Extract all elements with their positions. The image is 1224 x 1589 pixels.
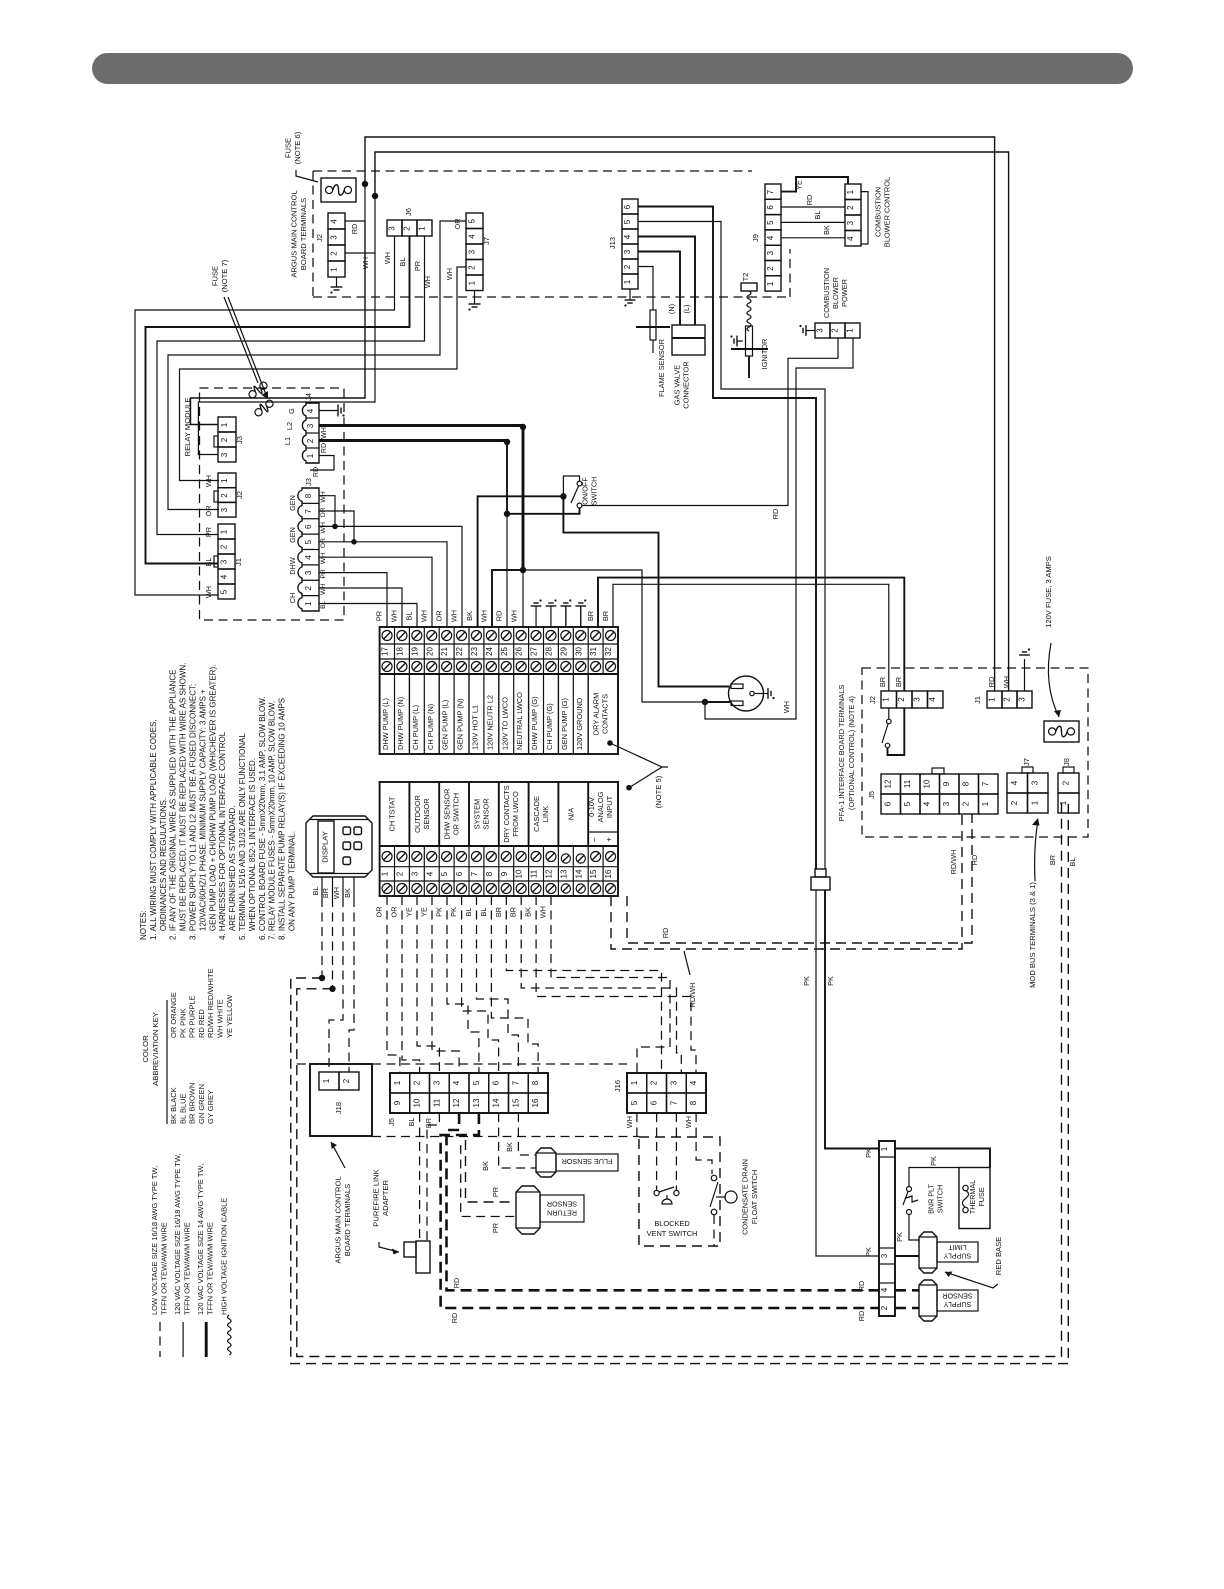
svg-text:GEN: GEN bbox=[288, 495, 297, 511]
svg-text:13: 13 bbox=[559, 869, 568, 878]
svg-text:3: 3 bbox=[913, 697, 922, 702]
svg-text:J2: J2 bbox=[235, 491, 244, 499]
svg-text:BK: BK bbox=[343, 888, 352, 898]
grounds above terminals 27-30 bbox=[531, 599, 587, 627]
notes text bbox=[139, 663, 297, 940]
svg-text:1: 1 bbox=[846, 328, 855, 333]
svg-text:ORDINANCES AND REGULATIONS.: ORDINANCES AND REGULATIONS. bbox=[159, 798, 168, 940]
svg-text:DHW PUMP (N): DHW PUMP (N) bbox=[396, 697, 405, 750]
wire BL t7 to J5-7 bbox=[477, 896, 519, 1073]
svg-text:SWITCH: SWITCH bbox=[590, 477, 599, 506]
labels RD/WH RD at PFA J5 bbox=[949, 850, 979, 875]
svg-text:RD: RD bbox=[661, 928, 670, 939]
svg-text:15: 15 bbox=[589, 869, 598, 878]
svg-text:4: 4 bbox=[766, 235, 775, 240]
leader fuse note7 bbox=[224, 297, 268, 399]
svg-text:(N): (N) bbox=[667, 304, 676, 314]
svg-text:5: 5 bbox=[766, 220, 775, 225]
svg-text:1: 1 bbox=[981, 801, 990, 806]
svg-text:RD: RD bbox=[771, 509, 780, 520]
svg-text:PR PURPLE: PR PURPLE bbox=[188, 995, 197, 1038]
wire WH neutral to blower power 1 bbox=[705, 338, 853, 719]
connector J2 (main board) bbox=[315, 213, 345, 277]
fuse F-note7 label bbox=[210, 259, 229, 292]
svg-text:4: 4 bbox=[623, 234, 632, 239]
svg-text:BL: BL bbox=[320, 600, 327, 609]
svg-text:2: 2 bbox=[846, 205, 855, 210]
svg-text:4: 4 bbox=[330, 219, 339, 224]
svg-text:FUSE: FUSE bbox=[283, 138, 292, 158]
svg-text:5: 5 bbox=[472, 1080, 481, 1085]
wire WH neutral run to plug bbox=[523, 570, 708, 705]
svg-text:CH PUMP (N): CH PUMP (N) bbox=[426, 704, 435, 750]
svg-text:2: 2 bbox=[403, 226, 412, 231]
svg-text:PUREFIRE LINK: PUREFIRE LINK bbox=[371, 1169, 380, 1226]
svg-text:RD: RD bbox=[350, 224, 359, 235]
svg-text:GY GREY: GY GREY bbox=[206, 1090, 215, 1124]
svg-text:RD: RD bbox=[321, 443, 328, 453]
svg-text:7: 7 bbox=[981, 781, 990, 786]
dashed stubs at J18 box bbox=[297, 1064, 639, 1137]
svg-text:(NOTE 5): (NOTE 5) bbox=[654, 775, 663, 808]
svg-text:120 VAC VOLTAGE SIZE 16/18 AWG: 120 VAC VOLTAGE SIZE 16/18 AWG TYPE TW, bbox=[173, 1153, 182, 1315]
svg-text:J7: J7 bbox=[482, 237, 491, 245]
svg-text:OR: OR bbox=[375, 907, 384, 918]
wire BR J5-11 to adapter bbox=[427, 1113, 439, 1241]
svg-text:3: 3 bbox=[468, 249, 477, 254]
svg-text:3: 3 bbox=[220, 507, 229, 512]
svg-text:RD/WH: RD/WH bbox=[688, 983, 697, 1008]
svg-text:LIMIT: LIMIT bbox=[948, 1243, 967, 1252]
svg-text:(NOTE 6): (NOTE 6) bbox=[293, 131, 302, 164]
svg-text:2: 2 bbox=[623, 264, 632, 269]
svg-text:5: 5 bbox=[220, 589, 229, 594]
svg-text:1: 1 bbox=[393, 1080, 402, 1085]
svg-text:FLOAT SWITCH: FLOAT SWITCH bbox=[750, 1170, 759, 1224]
svg-text:FLAME SENSOR: FLAME SENSOR bbox=[657, 339, 666, 397]
svg-text:2: 2 bbox=[220, 437, 229, 442]
svg-text:PK: PK bbox=[864, 1247, 873, 1257]
wire WH plug prong bbox=[705, 701, 731, 703]
svg-text:ON ANY PUMP TERMINAL.: ON ANY PUMP TERMINAL. bbox=[288, 831, 297, 940]
label PUREFIRE LINK ADAPTER bbox=[371, 1169, 390, 1226]
terminal strip TB 1-16 bbox=[380, 782, 618, 896]
wire L2/WH thick from J4-3 bbox=[319, 424, 526, 430]
svg-text:OR: OR bbox=[320, 538, 327, 548]
svg-text:5: 5 bbox=[630, 1100, 639, 1105]
svg-text:120VAC/60HZ/1 PHASE. MINIMUM S: 120VAC/60HZ/1 PHASE. MINIMUM SUPPLY CAPA… bbox=[198, 689, 207, 940]
svg-text:FUSE: FUSE bbox=[210, 266, 219, 286]
wire WH label near J7-2 bbox=[423, 276, 432, 288]
wire color labels below terminals 1-12 bbox=[375, 906, 548, 918]
svg-text:6: 6 bbox=[650, 1100, 659, 1105]
wire RD J9-6 to blower control 2 bbox=[781, 195, 845, 207]
svg-text:WH: WH bbox=[445, 268, 454, 280]
svg-text:6: 6 bbox=[304, 524, 313, 529]
svg-text:26: 26 bbox=[515, 647, 524, 656]
svg-text:RD: RD bbox=[970, 855, 979, 866]
svg-text:5: 5 bbox=[304, 539, 313, 544]
wire BL display to border net bbox=[319, 898, 325, 981]
wire WH display to J18-1 bbox=[329, 898, 343, 1072]
svg-text:YE: YE bbox=[420, 907, 429, 917]
svg-text:7: 7 bbox=[766, 189, 775, 194]
svg-text:6: 6 bbox=[766, 205, 775, 210]
svg-text:2: 2 bbox=[306, 438, 315, 443]
on/off switch bbox=[571, 481, 582, 508]
svg-text:BR: BR bbox=[586, 611, 595, 621]
svg-text:BL: BL bbox=[1068, 858, 1077, 867]
wire WH J7-2 to relay J2-1 bbox=[180, 267, 467, 481]
color abbreviation key bbox=[141, 968, 234, 1124]
svg-text:WH: WH bbox=[320, 553, 327, 564]
svg-text:BLOWER CONTROL: BLOWER CONTROL bbox=[883, 177, 892, 247]
wire YE J9-7 to blower control 1 bbox=[781, 177, 848, 192]
svg-text:RD: RD bbox=[805, 195, 814, 206]
svg-text:GEN PUMP LOAD + CH/DHW PUMP LO: GEN PUMP LOAD + CH/DHW PUMP LOAD (WHICHE… bbox=[208, 665, 217, 940]
svg-text:WH: WH bbox=[480, 610, 489, 622]
ground below J2-1 bbox=[330, 277, 342, 294]
title bar bbox=[92, 53, 1133, 84]
svg-text:G: G bbox=[287, 408, 296, 414]
labels PK pair bbox=[802, 976, 835, 986]
svg-text:BR BROWN: BR BROWN bbox=[188, 1083, 197, 1124]
wire RD J5-12 to supply terminal 4 bbox=[447, 1113, 880, 1290]
labels PR bbox=[491, 1187, 500, 1233]
svg-text:–: – bbox=[590, 837, 599, 842]
wire BK switched hot to terminal 23 bbox=[478, 496, 564, 627]
svg-text:N/A: N/A bbox=[566, 808, 575, 820]
wire YE t3 to J5-3 bbox=[417, 896, 439, 1073]
svg-text:21: 21 bbox=[440, 647, 449, 656]
svg-text:4: 4 bbox=[425, 871, 434, 876]
wire (L) J13-4 to gas valve bbox=[638, 237, 695, 326]
svg-text:1: 1 bbox=[418, 226, 427, 231]
svg-text:OR ORANGE: OR ORANGE bbox=[169, 992, 178, 1038]
svg-text:120V GROUND: 120V GROUND bbox=[575, 698, 584, 750]
svg-text:4: 4 bbox=[846, 236, 855, 241]
svg-text:12: 12 bbox=[884, 779, 893, 788]
svg-text:2: 2 bbox=[413, 1080, 422, 1085]
svg-text:11: 11 bbox=[903, 779, 912, 788]
svg-text:4: 4 bbox=[304, 555, 313, 560]
svg-text:3: 3 bbox=[766, 251, 775, 256]
terminal J4 bbox=[283, 393, 328, 477]
svg-text:1: 1 bbox=[623, 279, 632, 284]
svg-text:SYSTEM: SYSTEM bbox=[472, 799, 481, 829]
leader red base bbox=[945, 1272, 998, 1289]
svg-text:1. ALL WIRING MUST COMPLY WITH: 1. ALL WIRING MUST COMPLY WITH APPLICABL… bbox=[149, 719, 158, 940]
connector J6 bbox=[387, 208, 432, 236]
labels RD bottom runs bbox=[450, 1278, 461, 1324]
PFA-1 dashed box bbox=[862, 668, 1088, 837]
svg-text:WH: WH bbox=[420, 610, 429, 622]
svg-text:19: 19 bbox=[410, 647, 419, 656]
svg-text:29: 29 bbox=[559, 647, 568, 656]
relay module dashed box bbox=[200, 388, 345, 620]
svg-text:COMBUSTION: COMBUSTION bbox=[874, 187, 883, 237]
svg-text:BK BLACK: BK BLACK bbox=[169, 1087, 178, 1124]
svg-text:RD/WH: RD/WH bbox=[949, 850, 958, 875]
svg-text:10: 10 bbox=[515, 869, 524, 878]
wire switched hot to plug bbox=[563, 496, 729, 686]
leader argus bottom bbox=[331, 1142, 345, 1168]
wire OR t1 to J5-1 bbox=[387, 896, 400, 1073]
svg-text:4. HARNESSES FOR OPTIONAL INTE: 4. HARNESSES FOR OPTIONAL INTERFACE CONT… bbox=[218, 731, 227, 940]
svg-text:1: 1 bbox=[330, 267, 339, 272]
svg-text:SENSOR: SENSOR bbox=[422, 798, 431, 829]
svg-text:J5: J5 bbox=[387, 1118, 396, 1126]
svg-text:GEN PUMP (G): GEN PUMP (G) bbox=[560, 698, 569, 750]
svg-text:OR: OR bbox=[204, 506, 213, 517]
svg-text:BL: BL bbox=[204, 558, 213, 567]
svg-text:J16: J16 bbox=[613, 1080, 622, 1092]
display wires BL BR WH BK bbox=[311, 877, 354, 899]
svg-text:3: 3 bbox=[623, 249, 632, 254]
wire BK J5-15 to flue sensor bbox=[518, 1113, 536, 1155]
svg-text:NEUTRAL LWCO: NEUTRAL LWCO bbox=[515, 692, 524, 750]
svg-text:6: 6 bbox=[455, 871, 464, 876]
wire L1 feed to on/off switch bbox=[507, 508, 580, 514]
connector J5 (main board bottom) bbox=[387, 1073, 548, 1128]
svg-text:YE YELLOW: YE YELLOW bbox=[225, 994, 234, 1038]
connector J7 (main board) bbox=[445, 213, 491, 291]
svg-text:PK: PK bbox=[864, 1148, 873, 1158]
label RD (to PFA J5) bbox=[661, 928, 670, 939]
svg-text:PR: PR bbox=[413, 261, 422, 271]
svg-text:J1: J1 bbox=[973, 696, 982, 704]
svg-text:2: 2 bbox=[342, 1078, 351, 1083]
labels PK PK RD RD at bar bbox=[857, 1148, 873, 1321]
svg-text:L2: L2 bbox=[285, 422, 294, 430]
svg-text:DISPLAY: DISPLAY bbox=[321, 831, 330, 863]
leader to note 5 bbox=[610, 743, 668, 788]
svg-text:DRY CONTACTS: DRY CONTACTS bbox=[502, 785, 511, 843]
svg-text:1: 1 bbox=[880, 1146, 889, 1151]
wire BL t8 to J5-8 bbox=[491, 896, 538, 1073]
svg-text:TFFN OR TEW/AWM WIRE: TFFN OR TEW/AWM WIRE bbox=[206, 1222, 215, 1315]
wire WH t12 to J16-1 bbox=[551, 896, 670, 1073]
svg-text:4: 4 bbox=[1010, 780, 1019, 785]
svg-text:WH: WH bbox=[539, 906, 548, 918]
wire WH J6-3 to relay J1-5 bbox=[135, 236, 395, 595]
svg-text:PR: PR bbox=[320, 569, 327, 579]
svg-text:8: 8 bbox=[304, 493, 313, 498]
svg-text:L1: L1 bbox=[283, 437, 292, 445]
svg-text:2: 2 bbox=[650, 1080, 659, 1085]
svg-text:WH: WH bbox=[321, 427, 328, 439]
fuse symbols (relay module, note 7) bbox=[246, 379, 269, 400]
svg-text:ARGUS MAIN CONTROL: ARGUS MAIN CONTROL bbox=[333, 1176, 342, 1263]
svg-text:WH: WH bbox=[204, 586, 213, 598]
svg-text:BOARD TERMINALS: BOARD TERMINALS bbox=[299, 198, 308, 270]
wire YE t4 to J5-4 bbox=[432, 896, 459, 1073]
wire OR relay J3-7 join bbox=[319, 511, 357, 545]
svg-text:4: 4 bbox=[880, 1287, 889, 1292]
svg-text:BLOCKED: BLOCKED bbox=[654, 1219, 689, 1228]
svg-text:SENSOR: SENSOR bbox=[547, 1200, 577, 1209]
label ARGUS MAIN CONTROL BOARD TERMINALS (top) bbox=[289, 190, 308, 277]
svg-text:ARGUS MAIN CONTROL: ARGUS MAIN CONTROL bbox=[289, 190, 298, 277]
svg-text:FUSE: FUSE bbox=[977, 1187, 986, 1206]
wire OR relay J3-5 to terminal 21 bbox=[319, 542, 447, 627]
wire L1 vertical bbox=[504, 442, 510, 517]
wire PK t5 to J5-5 bbox=[447, 896, 479, 1073]
svg-text:17: 17 bbox=[381, 647, 390, 656]
svg-text:1: 1 bbox=[766, 281, 775, 286]
label RD/WH bbox=[684, 951, 697, 1007]
wire BL relay J3-1 to terminal 19 bbox=[319, 604, 417, 628]
svg-text:PFA-1 INTERFACE BOARD TERMINAL: PFA-1 INTERFACE BOARD TERMINALS bbox=[837, 685, 846, 822]
svg-text:COMBUSTION: COMBUSTION bbox=[822, 268, 831, 318]
wire RD fuse to J2-4 bbox=[345, 184, 365, 234]
connector J18 bbox=[319, 1072, 359, 1114]
svg-text:CASCADE: CASCADE bbox=[532, 796, 541, 832]
svg-text:120 VAC VOLTAGE SIZE 14 AWG TY: 120 VAC VOLTAGE SIZE 14 AWG TYPE TW, bbox=[196, 1164, 205, 1315]
svg-text:WH: WH bbox=[1002, 676, 1011, 688]
return sensor bbox=[516, 1186, 584, 1234]
wire bar-3 to supply limit bbox=[895, 1255, 919, 1257]
svg-text:5. TERMINAL 15/16 AND 31/32 AR: 5. TERMINAL 15/16 AND 31/32 ARE ONLY FUN… bbox=[238, 733, 247, 940]
svg-text:POWER: POWER bbox=[840, 279, 849, 307]
wire WH fuse to J2-2 bbox=[345, 196, 375, 269]
svg-text:MUST BE REPLACED, IT MUST BE R: MUST BE REPLACED, IT MUST BE REPLACED WI… bbox=[179, 663, 188, 940]
svg-text:10: 10 bbox=[413, 1098, 422, 1107]
svg-text:RD: RD bbox=[452, 1278, 461, 1289]
svg-text:14: 14 bbox=[574, 869, 583, 878]
svg-text:8. INSTALL SEPARATE PUMP RELAY: 8. INSTALL SEPARATE PUMP RELAY(S) IF EXC… bbox=[278, 698, 287, 940]
ground below J7-1 bbox=[468, 290, 480, 311]
node analog input corner bbox=[626, 785, 632, 791]
svg-text:RETURN: RETURN bbox=[547, 1209, 577, 1218]
svg-text:16: 16 bbox=[604, 869, 613, 878]
svg-text:1: 1 bbox=[304, 601, 313, 606]
wire RD fuse to relay J3-1 bbox=[191, 221, 366, 425]
svg-text:WH: WH bbox=[684, 1116, 693, 1128]
wire OR t2 to J5-2 bbox=[402, 896, 420, 1073]
connector PFA J8 bbox=[1058, 758, 1079, 813]
svg-text:PR: PR bbox=[491, 1187, 500, 1197]
connector J16 bbox=[613, 1073, 706, 1128]
purefire link adapter bbox=[404, 1241, 430, 1273]
thermal fuse box bbox=[959, 1168, 990, 1229]
display module bbox=[306, 816, 372, 877]
wire PR to return sensor lower bbox=[461, 1145, 516, 1217]
svg-text:YE: YE bbox=[795, 180, 804, 190]
svg-text:BL: BL bbox=[464, 908, 473, 917]
labels BR BL mod bus bbox=[1048, 855, 1077, 867]
svg-text:1: 1 bbox=[630, 1080, 639, 1085]
svg-text:GAS VALVE: GAS VALVE bbox=[673, 365, 682, 405]
svg-text:BR: BR bbox=[894, 677, 903, 687]
svg-text:(L): (L) bbox=[682, 305, 691, 314]
svg-text:3: 3 bbox=[816, 328, 825, 333]
fuse F-note6 bbox=[321, 178, 356, 202]
120V plug receptacle bbox=[729, 676, 792, 713]
svg-text:OR: OR bbox=[435, 611, 444, 622]
svg-text:30: 30 bbox=[574, 647, 583, 656]
svg-text:3: 3 bbox=[388, 226, 397, 231]
terminal strip TB 17-32 bbox=[380, 627, 618, 754]
connector PFA J7 bbox=[1007, 758, 1048, 813]
wire L2 vertical to neutral node bbox=[520, 427, 526, 573]
wire PK t6 to J5-6 bbox=[462, 896, 499, 1073]
svg-text:5: 5 bbox=[440, 871, 449, 876]
svg-text:1: 1 bbox=[322, 1078, 331, 1083]
wire color labels left of relay connectors bbox=[204, 475, 213, 598]
svg-text:120V FUSE, 3 AMPS: 120V FUSE, 3 AMPS bbox=[1044, 556, 1053, 628]
svg-text:RD: RD bbox=[857, 1281, 866, 1292]
svg-text:PK: PK bbox=[826, 976, 835, 986]
svg-text:BR: BR bbox=[878, 677, 887, 687]
svg-text:OR: OR bbox=[453, 219, 462, 230]
svg-text:1: 1 bbox=[381, 871, 390, 876]
svg-text:WH: WH bbox=[510, 610, 519, 622]
supply limit sensor bbox=[919, 1232, 978, 1273]
svg-text:2: 2 bbox=[330, 251, 339, 256]
svg-text:1: 1 bbox=[468, 280, 477, 285]
svg-text:BR: BR bbox=[494, 907, 503, 917]
svg-text:BL: BL bbox=[405, 612, 414, 621]
relay connector J1 bbox=[214, 524, 243, 599]
wire switch to supply limit bbox=[895, 1215, 919, 1242]
wire BK t11 to J16-4 bbox=[536, 896, 696, 1073]
svg-text:SWITCH: SWITCH bbox=[936, 1185, 945, 1213]
label ON/OFF SWITCH bbox=[581, 477, 599, 506]
svg-text:RD: RD bbox=[857, 1311, 866, 1322]
svg-text:RD: RD bbox=[987, 677, 996, 688]
svg-text:TFFN OR TEW/AWM WIRE: TFFN OR TEW/AWM WIRE bbox=[182, 1222, 191, 1315]
wire J13-5 to blower power 2 path bbox=[638, 222, 825, 870]
wire WH fuse to relay J3-3 bbox=[198, 253, 375, 455]
svg-text:PK: PK bbox=[802, 976, 811, 986]
svg-text:4: 4 bbox=[923, 801, 932, 806]
svg-text:1: 1 bbox=[882, 697, 891, 702]
wire BR t10 to J16-3 bbox=[521, 896, 681, 1073]
svg-text:9: 9 bbox=[393, 1100, 402, 1105]
svg-text:PK: PK bbox=[895, 1232, 904, 1242]
svg-text:0-10V: 0-10V bbox=[587, 797, 596, 817]
svg-text:WH: WH bbox=[332, 887, 341, 899]
wire BK J9-4 to blower control 4 bbox=[781, 225, 845, 238]
svg-text:DHW: DHW bbox=[288, 557, 297, 575]
svg-text:2: 2 bbox=[766, 266, 775, 271]
connector J13 bbox=[608, 199, 638, 289]
connector PFA J1 bbox=[973, 676, 1032, 708]
svg-text:9: 9 bbox=[942, 781, 951, 786]
svg-text:BNR PLT: BNR PLT bbox=[927, 1183, 936, 1213]
svg-text:IGNITOR: IGNITOR bbox=[760, 339, 769, 370]
svg-text:4: 4 bbox=[928, 697, 937, 702]
svg-text:CH PUMP (L): CH PUMP (L) bbox=[411, 705, 420, 750]
wire BL J9-5 to blower control 3 bbox=[781, 211, 845, 223]
svg-text:8: 8 bbox=[531, 1080, 540, 1085]
blocked vent dashed box bbox=[639, 1137, 720, 1246]
svg-text:11: 11 bbox=[530, 869, 539, 878]
wire BR t9 to J16-2 bbox=[506, 896, 661, 1073]
wire BL border run bbox=[291, 799, 1069, 1364]
svg-text:ANALOG: ANALOG bbox=[596, 791, 605, 822]
svg-text:3: 3 bbox=[306, 423, 315, 428]
flame sensor bbox=[636, 310, 670, 397]
ground below J13-1 bbox=[624, 289, 635, 307]
svg-text:WH WHITE: WH WHITE bbox=[216, 999, 225, 1038]
label RED BASE bbox=[994, 1237, 1003, 1275]
transformer T2 bbox=[741, 273, 757, 291]
wire WH neutral to terminal 24 bbox=[492, 570, 523, 627]
wire PK to supply limit circuit bbox=[825, 890, 879, 1149]
label (NOTE 5) bbox=[654, 775, 663, 808]
